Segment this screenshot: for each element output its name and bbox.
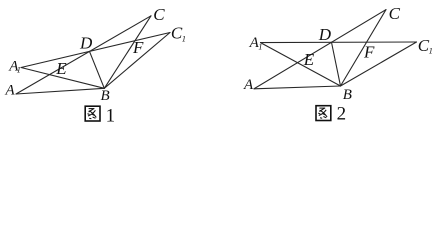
wire BD fig2: [332, 42, 341, 86]
wire AC fig2: [254, 10, 386, 89]
svg-text:1: 1: [429, 46, 433, 56]
wire A1C1 fig2: [261, 41, 417, 44]
svg-text:1: 1: [17, 65, 21, 75]
wire BC1 fig2: [341, 42, 417, 86]
svg-text:1: 1: [106, 105, 116, 126]
wire BD fig1: [90, 51, 105, 88]
svg-text:B: B: [101, 88, 110, 104]
caption glyph tu (figure) fig2: [316, 106, 331, 121]
svg-text:1: 1: [258, 41, 262, 51]
svg-text:C: C: [153, 5, 165, 24]
svg-text:A: A: [5, 83, 16, 99]
wire AB fig1: [16, 88, 104, 94]
caption glyph tu (figure) fig1: [85, 106, 100, 121]
wire A1C1 fig1: [21, 33, 170, 68]
svg-text:A: A: [243, 77, 254, 93]
svg-text:F: F: [132, 38, 144, 57]
svg-text:F: F: [363, 43, 375, 62]
wire A1B fig2: [261, 43, 341, 86]
wire BC1 fig1: [104, 33, 170, 89]
svg-text:2: 2: [337, 104, 347, 125]
svg-text:E: E: [55, 59, 67, 78]
svg-text:D: D: [318, 25, 332, 44]
wire A1B fig1: [21, 68, 104, 89]
svg-text:B: B: [343, 87, 352, 103]
wire BC fig1: [104, 16, 151, 89]
wire AB fig2: [254, 86, 341, 89]
svg-text:E: E: [303, 50, 315, 69]
wire BC fig2: [341, 10, 387, 86]
svg-text:C: C: [389, 4, 401, 23]
svg-text:1: 1: [182, 33, 186, 43]
wire AC fig1: [16, 16, 151, 94]
svg-text:D: D: [79, 33, 93, 52]
